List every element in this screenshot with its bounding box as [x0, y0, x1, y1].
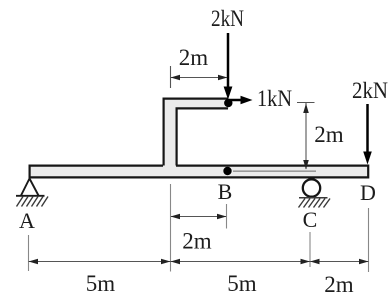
roller support C ground line: [299, 197, 328, 199]
force arrow 1kN (horizontal, right): [229, 96, 253, 104]
svg-text:2kN: 2kN: [352, 78, 388, 103]
svg-text:2m: 2m: [182, 229, 212, 254]
thin link line from B to C inside beam: [233, 170, 316, 172]
dimension 2m (vertical, right of 1kN): [297, 103, 315, 170]
svg-text:2m: 2m: [314, 122, 344, 147]
frame member fill (column + top arm): [163, 98, 229, 165]
svg-text:C: C: [303, 207, 318, 232]
force arrow 2kN (top, down onto frame corner): [224, 33, 233, 100]
hinge dot at top of column (load point): [224, 99, 232, 107]
svg-text:D: D: [360, 180, 376, 205]
extension tick below B: [226, 204, 228, 229]
roller support C: [303, 179, 320, 196]
roller support C hatching: [299, 199, 331, 208]
pin support A: [16, 179, 45, 196]
main dimension chain line: [29, 261, 369, 263]
force arrow 2kN (right, down at D): [363, 104, 372, 165]
pin support A hatching: [17, 197, 49, 207]
dimension 2m (below B): [171, 216, 226, 218]
svg-text:2m: 2m: [324, 272, 354, 297]
extension line below frame column: [170, 184, 172, 272]
beam AD outline: [29, 165, 369, 179]
svg-text:1kN: 1kN: [257, 86, 292, 111]
svg-text:5m: 5m: [227, 271, 257, 296]
chain arrowheads: [29, 259, 39, 265]
beam AD fill: [29, 165, 369, 178]
frame column and top arm outline: [164, 99, 229, 166]
svg-text:2m: 2m: [179, 45, 209, 70]
main dimension chain extension lines: [29, 208, 369, 272]
svg-text:2kN: 2kN: [211, 6, 244, 31]
svg-text:5m: 5m: [86, 271, 116, 296]
svg-text:A: A: [19, 208, 35, 233]
svg-text:B: B: [218, 179, 233, 204]
dimension 2m (top, frame arm): [171, 66, 228, 88]
hinge dot B on beam: [223, 167, 231, 175]
